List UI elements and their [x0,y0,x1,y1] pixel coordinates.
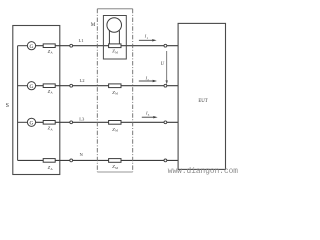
bus wire inside S [17,46,19,161]
current arrow I L2 [139,76,157,83]
resistor ZA1 [43,44,55,55]
voltage arrow U [161,51,168,85]
svg-text:S: S [6,103,9,109]
svg-text:L3: L3 [79,116,85,121]
wire L3 [36,121,179,123]
node L3 right [164,121,167,124]
source G2 [27,82,35,90]
wire bus to G2 [18,85,28,87]
wire L1 [36,45,179,47]
resistor ZA3 [43,121,55,132]
instrument lead left [108,31,110,44]
wire L2 [36,85,179,87]
node L1 left [70,44,73,47]
node L2 left [70,84,73,87]
instrument lead right [118,31,120,44]
svg-text:L1: L1 [78,38,84,43]
source G1 [27,42,35,50]
node N left [70,159,73,162]
svg-text:EUT: EUT [198,99,207,104]
shunt ZM4 [109,159,121,170]
shunt ZM1 [109,44,121,54]
node L1 right [164,44,167,47]
supply source box S [13,26,60,175]
current arrow I L1 [139,34,157,42]
instrument inner box [103,16,126,60]
svg-text:www.diangon.com: www.diangon.com [168,168,239,176]
resistor ZA2 [43,84,55,95]
shunt ZM3 [109,121,121,133]
svg-text:M: M [115,166,118,170]
svg-text:L2: L2 [79,78,85,83]
EUT box [178,23,225,169]
resistor ZA4 [43,159,55,172]
svg-text:M: M [91,22,96,28]
wire bus to G3 [18,121,28,123]
measurement equipment box M (dash-dot) [96,9,98,172]
wire bus to G1 [18,45,28,47]
current arrow I L3 [142,111,158,119]
svg-text:M: M [115,50,118,54]
svg-text:M: M [115,92,118,96]
svg-text:G: G [30,84,34,90]
svg-text:U: U [161,62,165,67]
source G3 [27,118,35,126]
node L2 right [164,84,167,87]
svg-text:G: G [30,44,34,50]
shunt ZM2 [109,84,121,96]
instrument meter circle [107,18,122,33]
node L3 left [70,121,73,124]
svg-text:M: M [115,129,118,133]
node N right [164,159,167,162]
svg-text:G: G [30,121,34,127]
wire N [18,159,179,161]
